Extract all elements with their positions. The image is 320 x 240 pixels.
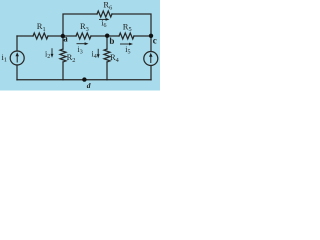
svg-text:c: c: [153, 36, 157, 46]
svg-text:d: d: [87, 81, 91, 90]
svg-text:a: a: [63, 33, 68, 43]
svg-text:b: b: [109, 36, 114, 46]
